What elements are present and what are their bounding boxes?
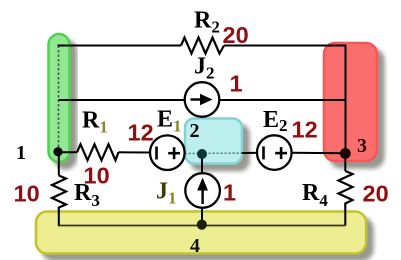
current source J1 arrow bbox=[201, 188, 203, 204]
svg-text:E2: E2 bbox=[263, 107, 288, 135]
node 3 junction dot bbox=[340, 148, 351, 159]
E1 plus bbox=[168, 152, 180, 155]
svg-text:R1: R1 bbox=[82, 108, 108, 137]
wire: node1 to R3 top bbox=[58, 151, 60, 176]
wire: E1 to node2 to E2 bbox=[185, 152, 258, 155]
node D highlight (yellow bar, node 4 rail) bbox=[36, 212, 366, 254]
svg-text:1: 1 bbox=[16, 142, 26, 164]
svg-text:4: 4 bbox=[190, 235, 200, 257]
svg-text:10: 10 bbox=[84, 163, 110, 189]
wire: R3 bottom to bottom rail bbox=[58, 213, 60, 226]
voltage source E1 circle bbox=[150, 135, 185, 170]
wire: left rail inside green bar bbox=[58, 46, 60, 152]
current source J1 circle bbox=[185, 173, 220, 208]
current source J2 circle bbox=[185, 82, 220, 117]
wire: second rail y=100 bbox=[59, 99, 186, 101]
wire: J1 bottom to node 4 bbox=[201, 208, 203, 225]
resistor R3 zigzag bbox=[52, 176, 66, 213]
E2 plus bbox=[275, 152, 287, 155]
svg-text:12: 12 bbox=[292, 117, 318, 143]
current source J2 arrow bbox=[191, 98, 204, 100]
svg-text:20: 20 bbox=[223, 22, 249, 48]
wire: row3 node1-R1 bbox=[59, 151, 78, 153]
resistor R4 zigzag bbox=[339, 171, 353, 210]
wire: right rail x=345.5 bbox=[345, 45, 347, 154]
node C highlight (cyan box, node 2) bbox=[185, 119, 242, 164]
svg-text:R4: R4 bbox=[302, 180, 328, 210]
wire: R1 to E1 bbox=[119, 151, 151, 153]
svg-text:3: 3 bbox=[357, 135, 367, 157]
svg-text:E1: E1 bbox=[157, 107, 182, 136]
svg-text:12: 12 bbox=[128, 120, 154, 146]
E1 minus bar bbox=[155, 147, 158, 160]
svg-text:R2: R2 bbox=[194, 8, 220, 37]
wire: top rail y=45.5 bbox=[58, 45, 182, 47]
node A highlight (green bar, node 1 rail) bbox=[49, 34, 70, 162]
svg-text:1: 1 bbox=[230, 71, 243, 97]
svg-text:J1: J1 bbox=[156, 179, 177, 208]
node 2 junction dot bbox=[197, 149, 207, 159]
svg-text:1: 1 bbox=[223, 180, 236, 206]
svg-text:10: 10 bbox=[14, 181, 40, 207]
wire: E2 to node3 bbox=[292, 152, 346, 155]
svg-text:J2: J2 bbox=[194, 54, 215, 83]
wire: bottom rail y=225.5 bbox=[58, 225, 346, 227]
node B highlight (red bar, node 3 rail) bbox=[324, 43, 377, 161]
voltage source E2 circle bbox=[257, 135, 292, 170]
node 4 junction dot bbox=[197, 220, 207, 230]
E2 minus bar bbox=[262, 146, 265, 159]
resistor R2 zigzag bbox=[181, 38, 224, 54]
node 1 junction dot bbox=[53, 147, 62, 156]
resistor R1 zigzag bbox=[77, 144, 119, 160]
svg-text:2: 2 bbox=[190, 120, 200, 142]
wire: node2 down to J1 bbox=[201, 154, 203, 174]
svg-text:20: 20 bbox=[363, 181, 389, 207]
